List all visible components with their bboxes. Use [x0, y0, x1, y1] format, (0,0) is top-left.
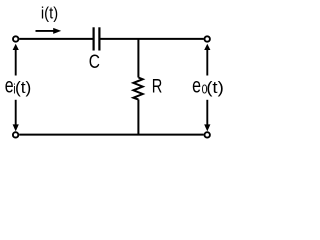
svg-text:(t): (t): [206, 78, 224, 97]
svg-text:e: e: [192, 73, 201, 97]
node: input bottom terminal: [13, 132, 18, 137]
wire top-right segment: [101, 38, 204, 40]
resistor R: [133, 78, 142, 100]
voltage arrow e_0(t) upper (points up to output top terminal): [204, 44, 210, 76]
voltage arrow e_i(t) upper (points up to input top terminal): [13, 44, 19, 76]
label e_i(t): [5, 73, 32, 97]
node: output top terminal: [205, 36, 210, 41]
svg-text:e: e: [5, 73, 14, 97]
svg-text:(t): (t): [15, 78, 31, 96]
current arrow i(t): [36, 28, 62, 34]
wire resistor branch lower: [137, 100, 139, 135]
capacitor C: [94, 27, 100, 50]
label e_0(t): [192, 73, 224, 97]
svg-text:C: C: [89, 51, 100, 73]
wire resistor branch upper: [137, 39, 139, 78]
svg-text:i(t): i(t): [41, 5, 58, 23]
wire bottom: [19, 134, 204, 136]
voltage arrow e_i(t) lower (points down to input bottom terminal): [13, 100, 19, 132]
voltage arrow e_0(t) lower (points down to output bottom terminal): [204, 100, 210, 132]
node: input top terminal: [13, 36, 18, 41]
wire top-left segment: [19, 38, 92, 40]
node: output bottom terminal: [205, 132, 210, 137]
svg-text:R: R: [152, 75, 163, 96]
